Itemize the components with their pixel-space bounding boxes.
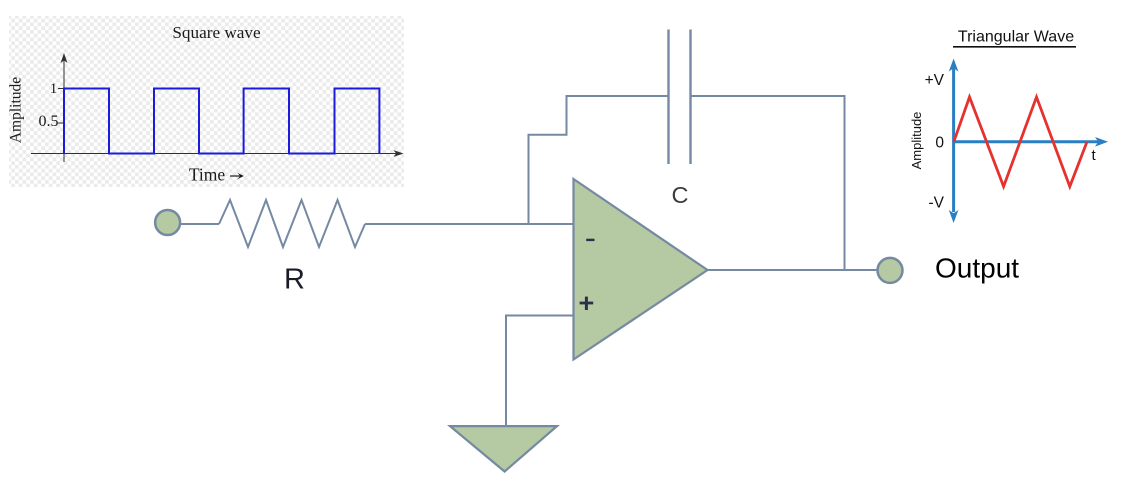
svg-text:Amplitude: Amplitude: [909, 112, 924, 170]
svg-text:C: C: [672, 182, 689, 208]
svg-text:+V: +V: [925, 72, 945, 89]
svg-text:0: 0: [935, 134, 944, 151]
svg-text:0.5: 0.5: [39, 113, 59, 130]
svg-text:Time: Time: [189, 165, 226, 185]
svg-text:t: t: [1092, 147, 1097, 164]
svg-text:1: 1: [50, 81, 58, 97]
svg-text:Amplitude: Amplitude: [8, 77, 25, 143]
svg-text:Triangular Wave: Triangular Wave: [958, 28, 1074, 45]
svg-text:Output: Output: [935, 253, 1019, 284]
svg-text:R: R: [284, 264, 305, 296]
svg-text:Square wave: Square wave: [172, 23, 261, 42]
svg-text:-V: -V: [929, 195, 945, 212]
